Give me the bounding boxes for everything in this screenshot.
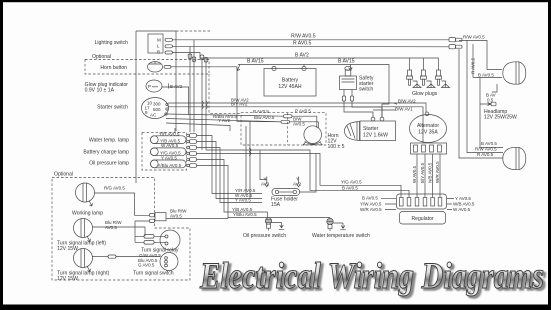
water temp lamp L2 pill <box>150 136 186 144</box>
cluster wire labels <box>158 131 182 168</box>
svg-text:12V 45AH: 12V 45AH <box>278 84 302 90</box>
svg-text:AV0.5: AV0.5 <box>105 225 117 230</box>
svg-text:100 ± 5: 100 ± 5 <box>328 144 345 150</box>
svg-text:Oil pressure lamp: Oil pressure lamp <box>89 160 129 166</box>
svg-text:12V 25W/25W: 12V 25W/25W <box>484 115 517 121</box>
svg-text:Y/G AV0.5: Y/G AV0.5 <box>341 180 362 185</box>
svg-text:Oil pressure switch: Oil pressure switch <box>243 233 286 239</box>
wire fuse to regulator B <box>300 154 317 192</box>
wire B AV0.5 down right <box>480 78 503 148</box>
svg-text:Working lamp: Working lamp <box>72 211 103 217</box>
alternator wires down <box>417 154 440 197</box>
harness connectors <box>188 54 192 59</box>
headlamp HL2 <box>503 147 526 169</box>
wire B AV15 bus <box>238 65 389 118</box>
water temperature switch S6 <box>312 218 370 240</box>
svg-text:B/w AV0.5: B/w AV0.5 <box>254 115 275 120</box>
wire right verticals <box>459 40 503 152</box>
svg-text:B AV15: B AV15 <box>338 59 355 65</box>
svg-text:B/Y AV2: B/Y AV2 <box>231 102 248 107</box>
horn button S2 <box>148 62 282 122</box>
lamp cluster box <box>142 132 187 170</box>
battery B1 <box>264 65 316 97</box>
svg-text:B/Y AV0.5: B/Y AV0.5 <box>420 162 425 183</box>
svg-text:Starter: Starter <box>363 126 379 132</box>
glow plug indicator L1 <box>146 80 189 115</box>
wire R/Blu AV0.5 / B/w AV0.5 to horn <box>166 119 281 122</box>
border frame <box>0 0 551 2</box>
svg-text:switch: switch <box>359 87 373 93</box>
svg-text:Y/R AV0.5: Y/R AV0.5 <box>159 131 180 136</box>
svg-text:Water temp. lamp: Water temp. lamp <box>89 137 129 143</box>
turn signal lamp right L7 <box>57 249 109 283</box>
svg-text:15A: 15A <box>271 202 281 208</box>
svg-text:G AV0.5: G AV0.5 <box>138 262 155 267</box>
wire drops from panel rows <box>260 150 267 180</box>
svg-text:B AV0.5: B AV0.5 <box>362 196 378 201</box>
starter switch S3 <box>142 98 169 119</box>
svg-text:B/W AV2: B/W AV2 <box>398 98 416 103</box>
panel enclosure left <box>136 31 176 183</box>
svg-text:Starter switch: Starter switch <box>97 105 128 111</box>
svg-text:AV0.5: AV0.5 <box>170 214 182 219</box>
svg-text:B AV0.5: B AV0.5 <box>478 72 494 77</box>
connector Blu R/W <box>135 209 228 243</box>
svg-text:W/B AV0.5: W/B AV0.5 <box>453 202 475 207</box>
water switch ground <box>333 223 346 230</box>
svg-text:W/R AV0.5: W/R AV0.5 <box>360 207 382 212</box>
turn signal relay K1 <box>141 230 180 254</box>
svg-text:W AV0.5: W AV0.5 <box>412 165 417 183</box>
svg-text:P: P <box>148 84 151 89</box>
headlamp1 ground lead <box>492 84 497 92</box>
svg-text:B AV2: B AV2 <box>170 84 183 89</box>
svg-text:P AV0.5: P AV0.5 <box>253 109 269 114</box>
oil pressure switch S5 <box>243 212 286 239</box>
wire lamp right to switch <box>93 256 109 258</box>
svg-text:Y/B AV0.5: Y/B AV0.5 <box>232 207 253 212</box>
svg-text:Regulator: Regulator <box>411 216 433 222</box>
svg-text:AV0.5: AV0.5 <box>293 122 305 127</box>
wire Blu R/W AV0.5 lamp left <box>93 227 146 236</box>
wire branch to headlamp1 <box>473 70 502 78</box>
wire B/W AV2 row <box>168 103 426 112</box>
svg-text:12V 15W: 12V 15W <box>57 276 78 282</box>
svg-text:Turn signal switch: Turn signal switch <box>133 271 174 277</box>
working lamp L5 <box>72 183 103 217</box>
svg-text:Y/W AV0.5: Y/W AV0.5 <box>360 202 382 207</box>
wire B/W AV1 <box>373 109 396 111</box>
svg-text:Y AV0.5: Y AV0.5 <box>235 197 251 202</box>
svg-text:300: 300 <box>153 102 161 107</box>
optional dashed box (turn signals) <box>52 178 190 281</box>
svg-text:Y AV0.5: Y AV0.5 <box>161 155 177 160</box>
svg-text:Y/Blu AV0.5: Y/Blu AV0.5 <box>158 163 182 168</box>
turn signal lamp left L6 <box>57 219 106 253</box>
cluster harness to bottom labels <box>197 136 263 194</box>
svg-text:12V 1.6kW: 12V 1.6kW <box>363 133 388 139</box>
svg-text:0.5: 0.5 <box>487 98 494 103</box>
wire Y AV2 row <box>166 123 230 131</box>
svg-text:B: B <box>157 50 160 55</box>
svg-text:W AV0.5: W AV0.5 <box>453 207 471 212</box>
arrow to battery plus <box>237 65 240 71</box>
svg-text:Glow plugs: Glow plugs <box>412 91 438 97</box>
svg-text:B AV2: B AV2 <box>295 53 309 59</box>
cluster connector plugs <box>187 134 197 168</box>
svg-text:Lighting switch: Lighting switch <box>95 40 129 46</box>
svg-text:Alternator: Alternator <box>417 123 439 129</box>
turn signal switch S7 <box>133 253 178 277</box>
svg-text:12V 35A: 12V 35A <box>418 130 438 136</box>
svg-text:Battery charge lamp: Battery charge lamp <box>83 150 129 156</box>
svg-text:Optional: Optional <box>54 172 73 178</box>
wire B from switch <box>173 53 439 59</box>
svg-text:500: 500 <box>153 107 161 112</box>
dash-dot top <box>176 30 210 32</box>
wire R/W AV0.5 top bus <box>173 39 450 41</box>
svg-text:R AV0.5: R AV0.5 <box>477 152 494 157</box>
regulator connector <box>397 194 447 209</box>
wire B AV2 right vertical <box>459 49 503 158</box>
wire R/G AV0.5 <box>95 193 150 215</box>
safety switch leads to starter <box>343 90 345 97</box>
svg-text:B AV0.5: B AV0.5 <box>342 185 358 190</box>
battery charge lamp L3 pill <box>150 148 186 156</box>
svg-text:Electrical Wiring Diagrams: Electrical Wiring Diagrams <box>199 256 544 297</box>
svg-text:Horn button: Horn button <box>100 65 127 71</box>
regulator box <box>400 212 446 225</box>
wire R AV0.5 bus <box>173 45 450 48</box>
svg-text:R/G AV0.5: R/G AV0.5 <box>104 186 125 191</box>
svg-text:Battery: Battery <box>282 78 299 84</box>
svg-text:R AV0.5: R AV0.5 <box>471 57 476 74</box>
wire crossing humps <box>249 148 251 156</box>
svg-text:Y AV0.5: Y AV0.5 <box>455 196 471 201</box>
svg-text:12V 15W: 12V 15W <box>57 246 78 252</box>
svg-text:Y/Blu AV0.5: Y/Blu AV0.5 <box>233 212 257 217</box>
arrow to safety switch <box>349 65 353 71</box>
svg-text:W/R AV0.5: W/R AV0.5 <box>435 161 440 183</box>
svg-text:R/W AV0.5: R/W AV0.5 <box>291 34 316 40</box>
harness hop-overs <box>202 101 207 109</box>
svg-text:B/W AV1: B/W AV1 <box>395 107 413 112</box>
svg-text:AC: AC <box>150 113 157 118</box>
svg-text:R/W AV0.5: R/W AV0.5 <box>475 146 497 151</box>
svg-text:Optional: Optional <box>92 54 111 60</box>
starter M1 <box>345 117 396 140</box>
wire P AV0.5 with fuse <box>167 114 283 116</box>
fuse holder F1 <box>271 189 300 208</box>
lighting switch SW1 <box>148 34 173 55</box>
horn dashed box <box>241 113 326 145</box>
svg-text:Y AV2: Y AV2 <box>218 118 231 123</box>
svg-text:M: M <box>157 38 161 43</box>
alternator connector block <box>411 143 447 154</box>
svg-text:B AV0.5: B AV0.5 <box>481 141 497 146</box>
svg-text:R/W AV0.5: R/W AV0.5 <box>463 34 485 39</box>
svg-text:0.9V 10 ± 1A: 0.9V 10 ± 1A <box>85 88 115 94</box>
vertical harness pairs <box>190 40 206 150</box>
safety starter switch S4 <box>340 66 374 92</box>
horn H1 <box>303 126 345 150</box>
oil pressure lamp L4 pill <box>150 160 186 168</box>
svg-text:R AV0.5: R AV0.5 <box>293 41 311 47</box>
alternator G1 <box>410 112 447 143</box>
oil switch ground <box>272 223 285 230</box>
connector pair top right <box>449 38 462 49</box>
headlamp HL1 <box>503 62 526 84</box>
svg-text:W AV0.5: W AV0.5 <box>161 143 179 148</box>
wire B/Y AV2 row <box>168 107 423 143</box>
svg-text:Water temperature switch: Water temperature switch <box>312 233 370 239</box>
svg-text:B AV15: B AV15 <box>247 59 264 65</box>
svg-text:N/B AV0.5: N/B AV0.5 <box>428 162 433 183</box>
optional dashed box (horn button) <box>85 60 209 75</box>
glow plugs GP <box>407 58 450 97</box>
